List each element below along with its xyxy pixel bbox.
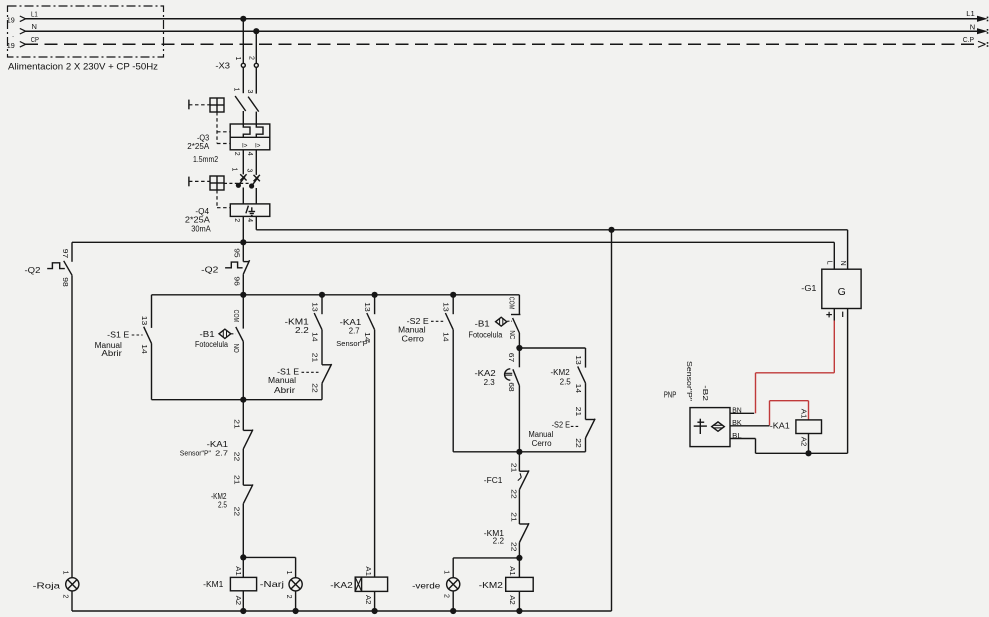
svg-text:13: 13 bbox=[310, 302, 317, 312]
svg-text:Cerro: Cerro bbox=[532, 439, 553, 448]
svg-text:BL: BL bbox=[732, 433, 742, 440]
svg-text:13: 13 bbox=[442, 302, 449, 312]
svg-text:13: 13 bbox=[140, 316, 147, 326]
svg-text:CP: CP bbox=[31, 35, 39, 44]
svg-text:19: 19 bbox=[7, 41, 15, 50]
svg-text:21: 21 bbox=[510, 463, 517, 473]
svg-text:2.2: 2.2 bbox=[295, 326, 309, 335]
svg-text:A2: A2 bbox=[800, 437, 807, 447]
svg-text:-Q2: -Q2 bbox=[25, 266, 42, 275]
svg-text:-KM1: -KM1 bbox=[203, 580, 224, 589]
svg-text:68: 68 bbox=[507, 382, 514, 392]
svg-text:22: 22 bbox=[510, 542, 517, 552]
svg-text:L1: L1 bbox=[966, 9, 975, 18]
svg-text:21: 21 bbox=[510, 512, 517, 522]
svg-text:-Roja: -Roja bbox=[33, 580, 61, 590]
svg-text:4: 4 bbox=[246, 152, 253, 156]
svg-text:2: 2 bbox=[442, 594, 449, 598]
svg-text:1: 1 bbox=[231, 168, 238, 172]
svg-text:97: 97 bbox=[61, 249, 68, 259]
svg-text:A1: A1 bbox=[800, 409, 807, 419]
svg-text:2: 2 bbox=[233, 152, 240, 156]
svg-text:NO: NO bbox=[232, 344, 239, 353]
svg-text:G: G bbox=[838, 286, 846, 298]
svg-text:13: 13 bbox=[574, 355, 581, 365]
svg-text:13: 13 bbox=[363, 302, 370, 312]
svg-text:Fotocelula: Fotocelula bbox=[469, 330, 503, 339]
svg-text:L: L bbox=[826, 261, 833, 265]
svg-text:14: 14 bbox=[574, 384, 581, 394]
svg-text:2.2: 2.2 bbox=[493, 536, 505, 545]
svg-text:-Q2: -Q2 bbox=[201, 265, 219, 274]
svg-text:-KA1: -KA1 bbox=[770, 421, 791, 430]
svg-text:2*25A: 2*25A bbox=[185, 216, 211, 225]
svg-text:Abrir: Abrir bbox=[274, 386, 295, 395]
svg-text:-KM2: -KM2 bbox=[479, 580, 503, 590]
svg-text:22: 22 bbox=[232, 452, 239, 462]
svg-text:Manual: Manual bbox=[268, 376, 296, 385]
svg-text:21: 21 bbox=[310, 353, 317, 363]
svg-text:14: 14 bbox=[140, 344, 147, 354]
svg-text:1: 1 bbox=[233, 88, 240, 92]
svg-text:22: 22 bbox=[232, 507, 239, 517]
svg-text:-KA2: -KA2 bbox=[330, 580, 353, 590]
svg-text:Sensor"P": Sensor"P" bbox=[336, 339, 370, 348]
svg-text:Fotocelula: Fotocelula bbox=[195, 340, 228, 349]
svg-text:2.5: 2.5 bbox=[560, 377, 572, 386]
svg-text:21: 21 bbox=[574, 407, 581, 417]
svg-text:C.P: C.P bbox=[963, 35, 974, 44]
svg-text:Cerro: Cerro bbox=[402, 335, 425, 344]
svg-text:I>: I> bbox=[255, 143, 261, 150]
svg-text:COM: COM bbox=[508, 297, 515, 310]
svg-text:-verde: -verde bbox=[412, 580, 441, 590]
svg-text:2.3: 2.3 bbox=[484, 378, 496, 387]
svg-text:-KA2: -KA2 bbox=[475, 369, 497, 378]
svg-text:-S1 E: -S1 E bbox=[107, 331, 129, 340]
svg-text:96: 96 bbox=[232, 276, 239, 286]
svg-text:-B1: -B1 bbox=[200, 330, 216, 339]
svg-text:N: N bbox=[839, 261, 846, 266]
svg-text:2.7: 2.7 bbox=[215, 448, 228, 457]
svg-text:Abrir: Abrir bbox=[101, 349, 122, 358]
svg-text:Alimentacion 2 X 230V + CP -50: Alimentacion 2 X 230V + CP -50Hz bbox=[8, 62, 158, 73]
svg-text:22: 22 bbox=[510, 489, 517, 499]
svg-text:14: 14 bbox=[310, 332, 317, 342]
svg-text:A1: A1 bbox=[234, 566, 241, 576]
svg-text:1: 1 bbox=[234, 57, 241, 61]
svg-text:A2: A2 bbox=[234, 596, 241, 606]
svg-text:-Narj: -Narj bbox=[260, 579, 284, 589]
svg-text:22: 22 bbox=[574, 438, 581, 448]
svg-text:Sensor"P": Sensor"P" bbox=[180, 448, 212, 457]
svg-text:2: 2 bbox=[233, 218, 240, 222]
svg-text:14: 14 bbox=[442, 332, 449, 342]
svg-text:1: 1 bbox=[442, 570, 449, 574]
svg-text:2.7: 2.7 bbox=[349, 327, 360, 336]
svg-text:A2: A2 bbox=[508, 595, 515, 605]
svg-text:N: N bbox=[970, 23, 975, 32]
svg-text:95: 95 bbox=[232, 248, 239, 258]
svg-text:30mA: 30mA bbox=[191, 225, 211, 234]
svg-text:1: 1 bbox=[61, 571, 68, 575]
svg-text:21: 21 bbox=[232, 419, 239, 429]
svg-text:BN: BN bbox=[732, 407, 742, 414]
svg-text:Manual: Manual bbox=[529, 430, 554, 439]
svg-text:I>: I> bbox=[242, 143, 248, 150]
svg-text:A1: A1 bbox=[364, 566, 371, 576]
svg-text:98: 98 bbox=[61, 277, 68, 287]
svg-text:21: 21 bbox=[232, 475, 239, 485]
svg-text:A2: A2 bbox=[364, 595, 371, 605]
svg-text:-G1: -G1 bbox=[801, 284, 817, 293]
svg-text:2: 2 bbox=[247, 56, 254, 60]
svg-text:2: 2 bbox=[285, 595, 292, 599]
svg-text:22: 22 bbox=[310, 383, 317, 393]
svg-text:BK: BK bbox=[732, 420, 742, 427]
svg-text:19: 19 bbox=[7, 16, 15, 25]
svg-text:.: . bbox=[12, 30, 14, 39]
svg-text:Sensor"P": Sensor"P" bbox=[685, 361, 692, 402]
svg-text:N: N bbox=[32, 22, 37, 31]
svg-text:4: 4 bbox=[246, 218, 253, 222]
svg-text:-Q4: -Q4 bbox=[195, 207, 209, 216]
svg-text:A1: A1 bbox=[508, 566, 515, 576]
svg-text:Manual: Manual bbox=[398, 325, 426, 334]
svg-text:-B1: -B1 bbox=[475, 319, 491, 328]
svg-text:-X3: -X3 bbox=[215, 61, 230, 70]
svg-text:1.5mm2: 1.5mm2 bbox=[193, 154, 218, 164]
svg-text:PNP: PNP bbox=[664, 390, 677, 399]
svg-text:-FC1: -FC1 bbox=[484, 476, 503, 485]
svg-text:3: 3 bbox=[245, 169, 252, 173]
svg-text:-B2: -B2 bbox=[701, 385, 708, 401]
svg-text:NC: NC bbox=[508, 330, 515, 339]
svg-text:-S2 E: -S2 E bbox=[552, 421, 570, 430]
svg-text:L1: L1 bbox=[31, 9, 38, 18]
svg-text:67: 67 bbox=[507, 353, 514, 363]
svg-text:1: 1 bbox=[285, 571, 292, 575]
svg-text:3: 3 bbox=[246, 90, 253, 94]
svg-text:2.5: 2.5 bbox=[218, 500, 228, 509]
svg-text:COM: COM bbox=[232, 310, 239, 323]
svg-text:-KM2: -KM2 bbox=[551, 368, 571, 377]
svg-text:2: 2 bbox=[61, 594, 68, 598]
svg-text:2*25A: 2*25A bbox=[187, 142, 210, 151]
